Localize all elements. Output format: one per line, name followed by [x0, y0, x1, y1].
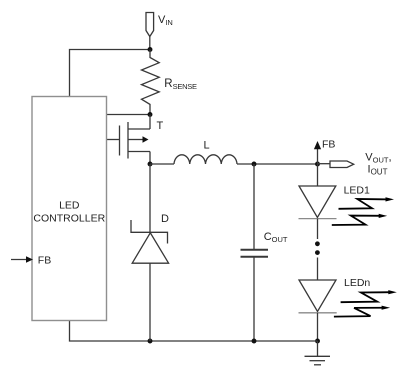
- svg-text:VIN: VIN: [158, 14, 173, 27]
- ground: [305, 341, 331, 365]
- wire FB node to LED1: [317, 164, 319, 186]
- IC LED controller box: [32, 97, 107, 321]
- svg-text:LED: LED: [59, 199, 80, 211]
- terminal VIN: [146, 13, 154, 50]
- svg-text:LED1: LED1: [344, 184, 370, 196]
- inductor L: [174, 155, 237, 164]
- wire switch node to inductor: [150, 163, 174, 165]
- wire COUT branch upper: [253, 164, 255, 249]
- LED LED1: [299, 186, 337, 219]
- svg-text:FB: FB: [322, 139, 335, 151]
- node COUT junction: [252, 162, 257, 167]
- wire switch node to diode: [149, 164, 151, 232]
- label VOUT IOUT: [365, 152, 391, 177]
- light rays LEDn: [334, 290, 397, 317]
- light rays LED1: [332, 197, 394, 225]
- wire dots to LEDn: [317, 258, 319, 281]
- svg-text:D: D: [161, 213, 169, 225]
- node ground junction: [315, 339, 320, 344]
- svg-text:COUT: COUT: [264, 231, 288, 244]
- svg-text:T: T: [157, 120, 164, 132]
- wire COUT branch lower: [253, 258, 255, 342]
- node VIN junction: [148, 47, 153, 52]
- wire VIN junction to controller top: [70, 50, 151, 97]
- node FB junction: [315, 162, 320, 167]
- diode D: [131, 220, 169, 341]
- wire controller to drain junction: [107, 114, 151, 116]
- wire FB sense arrow: [314, 141, 321, 164]
- node diode rail junction: [148, 339, 153, 344]
- svg-text:IOUT: IOUT: [368, 164, 388, 177]
- svg-text:CONTROLLER: CONTROLLER: [33, 213, 105, 225]
- node COUT rail junction: [252, 339, 257, 344]
- wire inductor to FB node: [237, 163, 318, 165]
- wire FB node to VOUT tag: [318, 163, 331, 165]
- label LED CONTROLLER: [33, 199, 105, 224]
- input FB arrow: [11, 256, 33, 263]
- svg-text:LEDn: LEDn: [344, 277, 370, 289]
- wire drain junction down: [149, 115, 151, 130]
- svg-text:VOUT,: VOUT,: [365, 152, 391, 165]
- resistor RSENSE: [142, 50, 160, 115]
- node switch junction: [148, 162, 153, 167]
- svg-text:L: L: [204, 140, 210, 152]
- capacitor COUT: [241, 250, 269, 257]
- wire LEDn to ground rail: [317, 313, 319, 341]
- series dots: [315, 241, 320, 255]
- svg-text:RSENSE: RSENSE: [164, 78, 197, 91]
- node drain junction: [148, 112, 153, 117]
- wire gate lead: [107, 139, 120, 141]
- svg-text:FB: FB: [38, 254, 51, 266]
- transistor T: [120, 122, 151, 164]
- LED LEDn: [299, 280, 337, 313]
- terminal VOUT tag: [330, 161, 354, 168]
- wire LED1 cathode: [317, 219, 319, 239]
- wire bottom rail: [70, 321, 318, 342]
